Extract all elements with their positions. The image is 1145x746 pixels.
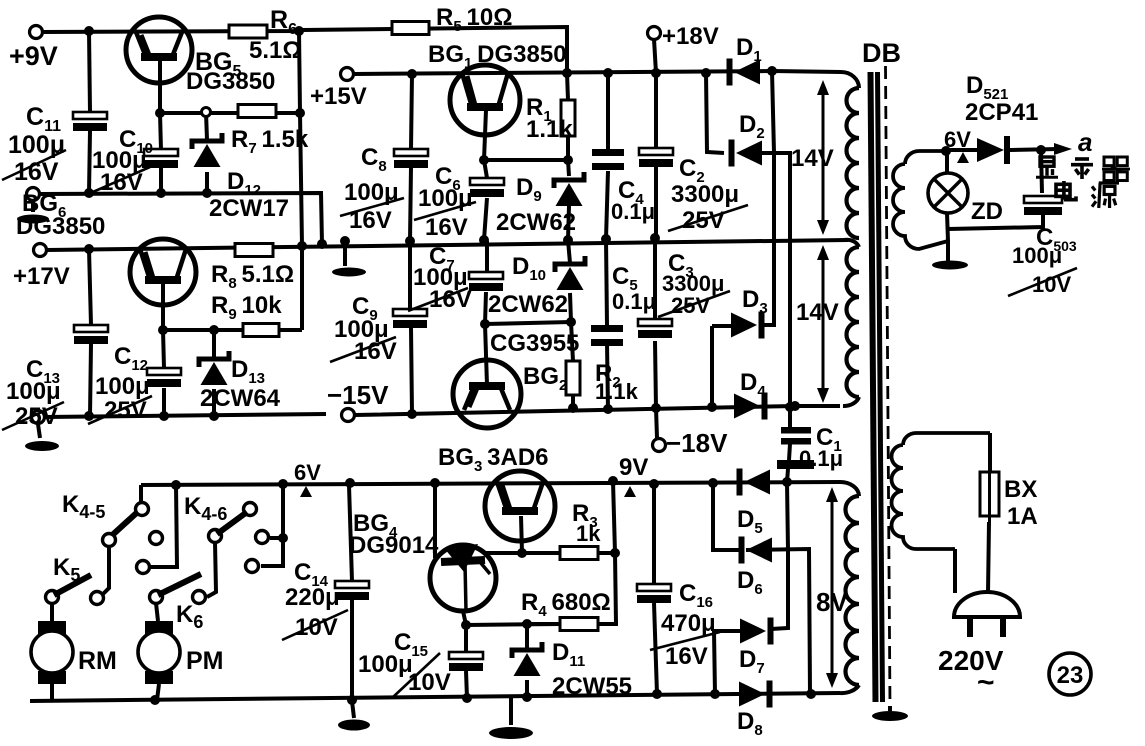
svg-text:BG1 DG3850: BG1 DG3850 <box>428 41 567 72</box>
svg-text:CG3955: CG3955 <box>490 330 579 357</box>
svg-text:+18V: +18V <box>662 23 719 50</box>
svg-text:100μ: 100μ <box>6 378 61 405</box>
svg-text:2CW55: 2CW55 <box>552 673 632 700</box>
svg-text:470μ: 470μ <box>661 610 716 637</box>
svg-text:R7 1.5k: R7 1.5k <box>231 126 309 157</box>
svg-text:10V: 10V <box>408 669 451 696</box>
svg-text:R9 10k: R9 10k <box>211 292 282 323</box>
svg-text:+17V: +17V <box>13 263 70 290</box>
svg-text:~: ~ <box>977 666 995 699</box>
svg-text:BX: BX <box>1004 476 1037 503</box>
svg-text:14V: 14V <box>791 145 834 172</box>
svg-text:PM: PM <box>186 647 224 675</box>
svg-text:0.1μ: 0.1μ <box>611 199 655 224</box>
svg-text:6V: 6V <box>944 127 971 152</box>
svg-text:R4 680Ω: R4 680Ω <box>521 589 611 620</box>
svg-text:9V: 9V <box>619 454 648 481</box>
svg-text:BG3 3AD6: BG3 3AD6 <box>438 444 549 475</box>
svg-text:1.1k: 1.1k <box>526 116 573 143</box>
svg-text:5.1Ω: 5.1Ω <box>249 37 302 64</box>
svg-text:220μ: 220μ <box>285 584 340 611</box>
svg-text:−18V: −18V <box>666 428 728 458</box>
svg-text:1A: 1A <box>1007 503 1038 530</box>
svg-text:2CW64: 2CW64 <box>200 385 281 412</box>
svg-text:2CW62: 2CW62 <box>496 209 576 236</box>
svg-text:ZD: ZD <box>971 198 1003 225</box>
svg-text:23: 23 <box>1057 662 1084 689</box>
svg-text:16V: 16V <box>665 643 708 670</box>
svg-text:2CW62: 2CW62 <box>488 291 568 318</box>
svg-text:6V: 6V <box>294 460 321 485</box>
svg-text:1.1k: 1.1k <box>595 379 639 404</box>
svg-text:1k: 1k <box>576 521 601 546</box>
svg-text:0.1μ: 0.1μ <box>612 289 656 314</box>
svg-text:DG9014: DG9014 <box>349 532 439 559</box>
svg-text:+15V: +15V <box>310 83 367 110</box>
svg-text:0.1μ: 0.1μ <box>799 446 843 471</box>
svg-text:2CP41: 2CP41 <box>965 99 1038 126</box>
svg-text:100μ: 100μ <box>95 373 150 400</box>
svg-text:−15V: −15V <box>327 380 389 410</box>
svg-text:RM: RM <box>78 647 117 675</box>
svg-text:DG3850: DG3850 <box>16 213 105 240</box>
svg-text:a: a <box>1078 127 1092 157</box>
svg-text:14V: 14V <box>796 299 839 326</box>
svg-text:R8 5.1Ω: R8 5.1Ω <box>211 261 294 292</box>
svg-text:100μ: 100μ <box>1012 243 1062 268</box>
svg-text:DB: DB <box>862 38 901 68</box>
svg-text:2CW17: 2CW17 <box>209 195 289 222</box>
svg-text:DG3850: DG3850 <box>186 68 275 95</box>
svg-text:100μ: 100μ <box>358 651 413 678</box>
svg-text:+9V: +9V <box>9 41 58 71</box>
svg-text:16V: 16V <box>425 214 468 241</box>
svg-text:100μ: 100μ <box>418 185 473 212</box>
svg-text:3300μ: 3300μ <box>671 181 739 208</box>
svg-text:8V: 8V <box>816 587 848 617</box>
svg-text:R5 10Ω: R5 10Ω <box>436 4 512 35</box>
